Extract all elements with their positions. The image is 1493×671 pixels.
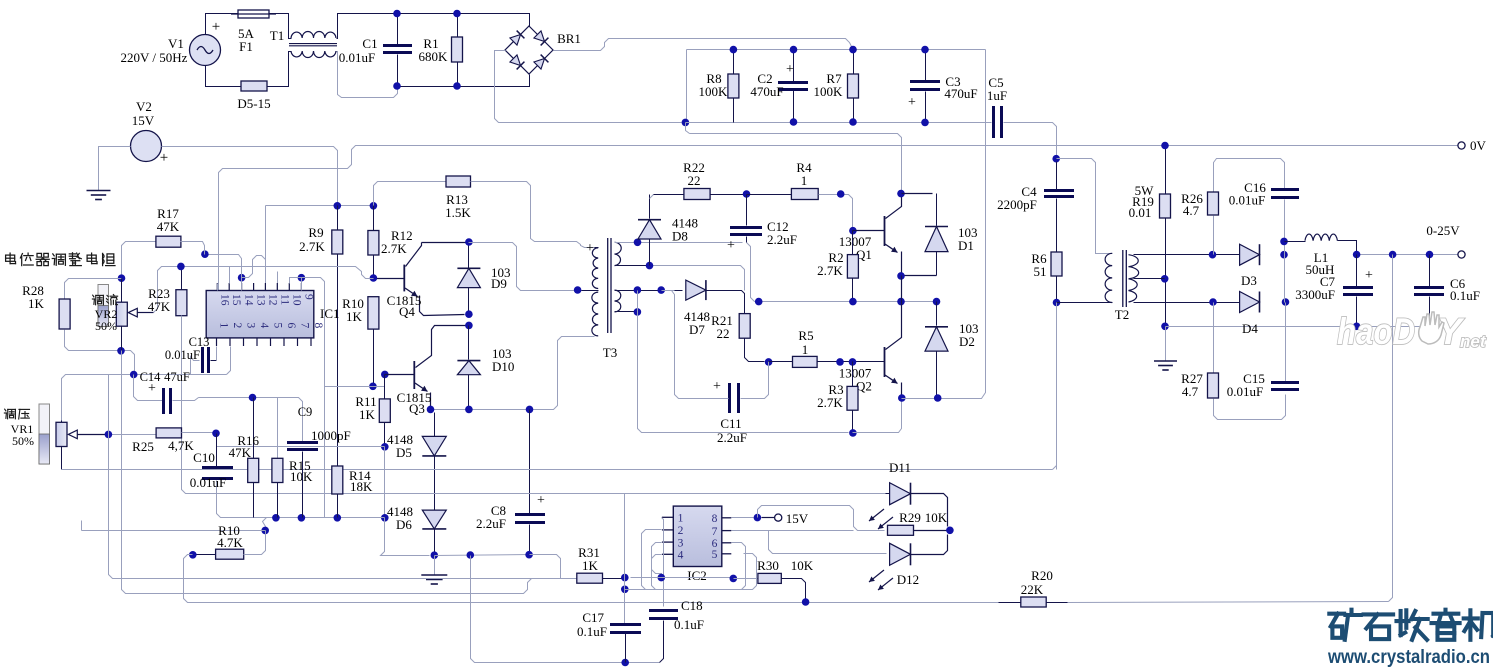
svg-text:R30: R30 <box>757 558 779 573</box>
IC IC2 body <box>673 506 722 566</box>
wire: T3 primary top lead <box>595 247 599 249</box>
wire: R9 bottom to R14 top <box>337 255 339 467</box>
resistor R10 4.7K (lower) <box>193 554 216 556</box>
IC1 pin 16 <box>216 283 218 291</box>
resistor R9 2.7K <box>337 206 339 231</box>
svg-text:D3: D3 <box>1241 273 1257 288</box>
resistor R25 4.7K <box>156 428 181 438</box>
svg-text:+: + <box>586 241 594 256</box>
svg-text:+: + <box>537 493 545 508</box>
node: D2 anode <box>934 394 942 402</box>
svg-text:+: + <box>713 379 721 394</box>
node: R15 bottom <box>272 514 280 522</box>
node: R7 bottom <box>849 118 857 126</box>
svg-text:1: 1 <box>801 173 808 188</box>
svg-text:2.7K: 2.7K <box>299 239 325 254</box>
wire: pin9 pin10 tie <box>298 274 306 282</box>
svg-text:0.01uF: 0.01uF <box>339 50 375 65</box>
svg-text:D8: D8 <box>672 229 688 244</box>
node: R6 bottom <box>1053 299 1061 307</box>
IC2 pin 8 <box>722 517 732 519</box>
node: center tap <box>574 286 582 294</box>
svg-text:50%: 50% <box>12 434 34 448</box>
wire: V2 right to drive rail <box>162 147 338 206</box>
diode D2 103 <box>936 302 938 326</box>
node: R1 top <box>453 10 461 18</box>
wire: T3 sec top upper lead to C12 <box>615 242 743 244</box>
wire: DC+ top rail <box>687 49 986 51</box>
diode D9 103 <box>457 267 480 269</box>
svg-text:R5: R5 <box>798 328 813 343</box>
svg-text:0.1uF: 0.1uF <box>674 617 704 632</box>
node: pin3 on rail <box>658 574 666 582</box>
svg-text:10K: 10K <box>290 469 313 484</box>
svg-text:Q3: Q3 <box>409 401 425 416</box>
wire: VR1 wiper row <box>109 434 157 436</box>
transistor Q4 C1815 <box>403 265 405 292</box>
node: R8 top <box>730 46 738 54</box>
svg-text:3: 3 <box>245 323 257 329</box>
node: R10 link <box>261 527 269 535</box>
node: C1 top <box>393 10 401 18</box>
wire: 0V rail <box>219 146 1459 291</box>
svg-text:D5: D5 <box>396 445 412 460</box>
diode D4 103 <box>1240 292 1260 313</box>
wire: pin14 drive node <box>238 274 246 282</box>
capacitor C3 470uF <box>925 50 927 81</box>
node: R10 left <box>189 551 197 559</box>
svg-text:2.2uF: 2.2uF <box>767 232 797 247</box>
node: R23 top <box>177 263 185 271</box>
node: 15V junction <box>754 514 762 522</box>
svg-text:5: 5 <box>712 549 718 561</box>
wire: row under IC1 <box>263 517 385 519</box>
svg-text:15V: 15V <box>786 511 809 526</box>
svg-text:2.7K: 2.7K <box>817 263 843 278</box>
node: R31 right <box>621 574 629 582</box>
svg-text:8: 8 <box>312 323 324 329</box>
svg-text:D12: D12 <box>897 572 919 587</box>
wire: pin16 stub <box>217 284 219 291</box>
svg-text:0.1uF: 0.1uF <box>577 624 607 639</box>
svg-text:D11: D11 <box>889 460 911 475</box>
svg-text:T3: T3 <box>603 345 617 360</box>
wire: center tap to T2 <box>1134 278 1165 280</box>
wire: D5-15 to T1 bottom <box>268 52 292 87</box>
node: R30 left <box>730 575 738 583</box>
wire: C11 left plate to D7 anode riser <box>672 291 729 399</box>
wire: R17 right to pin14 <box>205 255 242 278</box>
IC1 pin 14 <box>241 283 243 291</box>
svg-text:+: + <box>212 19 220 35</box>
svg-text:4.7: 4.7 <box>1182 384 1199 399</box>
node: C3 top <box>921 46 929 54</box>
svg-text:D7: D7 <box>689 322 705 337</box>
svg-text:15V: 15V <box>132 113 155 128</box>
wire: link line going left <box>82 530 266 532</box>
capacitor C14 47uF <box>134 375 163 401</box>
svg-text:9: 9 <box>302 294 314 300</box>
svg-text:1K: 1K <box>28 296 45 311</box>
node: C9 bottom <box>298 514 306 522</box>
svg-text:680K: 680K <box>419 49 449 64</box>
resistor R8 100K <box>733 50 735 75</box>
IC1 pin 8 <box>310 338 312 346</box>
svg-text:+: + <box>148 381 156 396</box>
ground symbol under R19 column <box>1165 327 1167 361</box>
svg-text:R9: R9 <box>308 225 323 240</box>
wire: Q4 collector to D9 node <box>422 242 466 244</box>
wire: AC top rail from V1 to fuse <box>206 14 239 35</box>
wire: VR1 wiper down to R31 rail <box>109 435 555 579</box>
diode LED D11 <box>886 493 890 495</box>
resistor R29 10K <box>888 525 914 535</box>
node: row drop junction <box>467 551 475 559</box>
svg-text:11: 11 <box>278 294 290 305</box>
resistor R1 680K <box>457 14 459 38</box>
node: VR2 bottom <box>117 347 125 355</box>
wire: T1 bottom right to bottom AC rail <box>337 52 398 98</box>
capacitor C2 470uF <box>793 50 795 82</box>
wire: T1 top right to AC rail with C1 R1 to bridge <box>337 14 530 39</box>
node: D4 cathode C15 <box>1282 298 1290 306</box>
wire: R28 bottom rail <box>65 330 135 375</box>
IC1 pin 11 <box>276 283 278 291</box>
node: D4 anode R27 <box>1209 298 1217 306</box>
wire: VR1 top to bias line <box>61 421 63 423</box>
diode D10 103 <box>457 360 480 362</box>
node: feedback top <box>1389 251 1397 259</box>
wire: pin12 riser <box>265 206 267 291</box>
resistor R12 2.7K <box>373 206 375 231</box>
capacitor C13 0.01uF <box>191 357 200 375</box>
svg-text:C13: C13 <box>189 335 210 349</box>
bridge rectifier BR1 <box>505 26 553 74</box>
wire: DC+ rail left end down to DC- junction <box>686 50 687 123</box>
svg-text:D1: D1 <box>958 238 974 253</box>
node: D10 bottom <box>465 406 473 414</box>
svg-text:IC1: IC1 <box>320 306 340 321</box>
diode D6 4148 <box>422 510 446 529</box>
diode D3 103 <box>1240 244 1260 265</box>
svg-text:6: 6 <box>285 323 297 329</box>
wire: DC+ rail right end down to Q2 emitter rail <box>942 50 986 399</box>
IC2 pin 2 <box>662 529 673 531</box>
node: C4 top junction <box>1052 155 1060 163</box>
svg-text:2200pF: 2200pF <box>997 197 1037 212</box>
wire: drive supply row to R9 R12 <box>266 205 374 207</box>
svg-text:1: 1 <box>678 513 684 525</box>
wire: bridge right vertex to DC+ rail <box>554 39 852 51</box>
svg-text:4.7K: 4.7K <box>217 535 243 550</box>
svg-text:V2: V2 <box>136 99 152 114</box>
node: R1 bottom <box>453 82 461 90</box>
svg-text:10K: 10K <box>791 558 814 573</box>
IC IC1 TL494 body <box>206 291 314 338</box>
wire: IC2 pin2 lead <box>642 530 662 590</box>
wire: row left curve to R10 link <box>263 518 267 531</box>
node: Q3 emitter <box>427 406 435 414</box>
node: C2 bottom <box>790 118 798 126</box>
wire: T3 primary center tap to Q4 collector node <box>582 290 599 292</box>
capacitor C9 1000pF <box>287 441 318 444</box>
resistor R19 0.01 5W <box>1165 146 1167 195</box>
node: sec bottom lower <box>634 308 642 316</box>
node: Q3 base <box>381 371 389 379</box>
node: R10 bottom <box>369 383 377 391</box>
wire: VR1 wiper riser <box>108 375 110 435</box>
potentiometer VR2 <box>98 285 109 327</box>
svg-text:13: 13 <box>255 294 267 306</box>
svg-text:1K: 1K <box>582 558 599 573</box>
label VR2 <box>92 295 103 305</box>
node: Q3 collector junction <box>465 322 473 330</box>
node: R11 bottom <box>381 443 389 451</box>
svg-text:470uF: 470uF <box>750 84 783 99</box>
wire: R31 left jog to feedback rail <box>122 351 532 594</box>
wire: Q4 emitter <box>405 288 418 297</box>
wire: Q1 collector to D1 <box>902 193 933 195</box>
svg-text:T1: T1 <box>270 28 284 43</box>
watermark haoDIY.net <box>1337 311 1487 352</box>
resistor R28 1K <box>59 299 70 329</box>
capacitor C18 0.1uF <box>649 609 678 612</box>
wire: anode riser joins D7 line <box>662 290 675 292</box>
wire: T2 secondary bottom to D4 <box>1134 302 1240 304</box>
resistor R3 2.7K <box>852 362 854 387</box>
node: Q1 base <box>849 227 857 235</box>
svg-text:C9: C9 <box>298 405 313 419</box>
svg-text:0.1uF: 0.1uF <box>1450 288 1480 303</box>
svg-text:3: 3 <box>678 537 684 549</box>
svg-text:0V: 0V <box>1470 138 1487 153</box>
node: R5 right a <box>836 358 844 366</box>
svg-text:+: + <box>1365 268 1373 283</box>
wire: Q1 base lead <box>853 230 885 232</box>
svg-text:2: 2 <box>231 323 243 329</box>
svg-text:470uF: 470uF <box>944 86 977 101</box>
node: VR1 wiper <box>105 431 113 439</box>
IC1 pin 15 <box>228 283 230 291</box>
resistor R10 1K <box>368 297 379 329</box>
resistor R31 1K <box>577 573 603 583</box>
svg-text:14: 14 <box>243 294 255 306</box>
wire: R31 right column <box>624 494 626 624</box>
wire: R28 top link <box>65 279 122 300</box>
wire: IC2 pin4 lead <box>652 555 662 590</box>
IC2 pin 6 <box>722 542 732 544</box>
svg-text:2.7K: 2.7K <box>817 395 843 410</box>
svg-text:100K: 100K <box>814 84 844 99</box>
svg-text:12: 12 <box>266 294 278 306</box>
svg-text:1.5K: 1.5K <box>445 205 471 220</box>
wire: Q3 collector <box>416 326 466 368</box>
node: DC- junction <box>682 119 690 127</box>
svg-text:D10: D10 <box>492 359 514 374</box>
svg-text:+: + <box>727 238 735 253</box>
node: C12 top <box>743 190 751 198</box>
svg-text:Q4: Q4 <box>399 304 415 319</box>
wire: current sense rail to T2 <box>62 469 1053 471</box>
svg-text:D6: D6 <box>396 517 412 532</box>
wire: rail from VR1 wiper to R31 <box>555 578 577 580</box>
node: R19 top on 0V rail <box>1161 142 1169 150</box>
node: D6 bottom <box>431 551 439 559</box>
svg-text:haoD: haoD <box>1337 311 1415 352</box>
svg-text:47K: 47K <box>229 445 252 460</box>
svg-text:47uF: 47uF <box>164 370 190 384</box>
svg-text:16: 16 <box>218 294 230 306</box>
wire: row to R31 rail drop <box>530 555 561 579</box>
wire: fuse to T1 top <box>270 14 292 39</box>
resistor R2 2.7K <box>852 231 854 255</box>
wire: Q1 emitter <box>885 244 898 253</box>
potentiometer VR1 <box>39 404 50 464</box>
svg-text:0.01uF: 0.01uF <box>1229 193 1265 208</box>
svg-text:BR1: BR1 <box>557 31 581 46</box>
capacitor C16 0.01uF <box>1271 188 1299 191</box>
node: Q1 emitter Q2 collector <box>897 298 905 306</box>
IC2 pin 4 <box>662 553 673 555</box>
node: C3 bottom <box>921 119 929 127</box>
wire: Q3 emitter <box>415 383 428 392</box>
diode D1 103 <box>936 194 938 226</box>
wire: V2 left to ground <box>99 147 131 191</box>
node: Q2 emitter <box>898 394 906 402</box>
wire: V1 bottom to D5-15 <box>206 66 242 87</box>
wire: Q3 emitter row <box>431 337 595 410</box>
svg-text:100K: 100K <box>699 84 729 99</box>
svg-text:1K: 1K <box>346 309 363 324</box>
node: C7 bottom <box>1353 323 1361 331</box>
node: C17 top <box>621 586 629 594</box>
wire: Q1 collector <box>886 194 902 219</box>
svg-text:10: 10 <box>290 294 302 306</box>
wire: C16 bottom to L1 node <box>1284 200 1286 303</box>
wire: pin15 riser <box>229 267 231 284</box>
wire: R11 bottom line to C10 column <box>217 446 385 448</box>
svg-text:1: 1 <box>802 342 809 357</box>
IC2 pin 7 <box>722 530 732 532</box>
resistor R11 1K <box>384 375 386 399</box>
logo crystalradio <box>1327 610 1493 668</box>
wire: bridge left vertex to DC- rail <box>495 51 682 123</box>
wire: Q2 collector <box>886 302 902 350</box>
capacitor C15 0.01uF <box>1285 303 1287 382</box>
wire: R10 left drop to bottom rail <box>184 555 1047 603</box>
transistor Q3 C1815 <box>413 361 415 389</box>
wire: IC1 pin11 stub <box>277 272 279 291</box>
IC1 pin 1 <box>216 338 218 346</box>
wire: R3 bottom to Q2 emitter <box>853 399 902 433</box>
svg-text:V1: V1 <box>168 36 184 51</box>
resistor R4 1 <box>747 194 792 196</box>
node: sec top lead <box>634 239 642 247</box>
svg-text:C10: C10 <box>193 450 215 465</box>
wire: Q4 base lead <box>374 278 405 280</box>
transistor Q2 13007 <box>884 347 886 377</box>
transformer T2 <box>1122 250 1124 307</box>
node: C2 top <box>790 46 798 54</box>
wire: drop from row to bottom rail <box>471 556 660 663</box>
svg-text:7: 7 <box>299 323 311 329</box>
wire: R23 bottom to LED rail <box>182 316 886 494</box>
svg-text:18K: 18K <box>350 479 373 494</box>
ground symbol under V2 <box>87 190 111 192</box>
IC2 pin 3 <box>662 541 673 543</box>
svg-text:0.01uF: 0.01uF <box>190 475 226 490</box>
node: D8 anode <box>646 262 654 270</box>
svg-text:3300uF: 3300uF <box>1295 287 1335 302</box>
wire: pins column branch to Q3 base line <box>325 386 331 388</box>
node: R17 left VR2 top <box>118 274 126 282</box>
node: C6 top <box>1426 251 1434 259</box>
wire: IC2 pin1 column to C18 <box>662 518 664 607</box>
capacitor C17 0.1uF <box>610 623 641 626</box>
svg-text:IC2: IC2 <box>687 568 707 583</box>
resistor R30 10K <box>631 577 734 579</box>
resistor R7 100K <box>853 50 855 75</box>
node: D9 top <box>465 238 473 246</box>
resistor R26 4.7 <box>1214 159 1285 193</box>
wire: R6 bottom down to current sense rail <box>1053 303 1057 470</box>
svg-text:R20: R20 <box>1031 568 1053 583</box>
node: R3 bottom <box>849 429 857 437</box>
node: C14 left <box>130 371 138 379</box>
svg-text:D2: D2 <box>959 334 975 349</box>
node: C16 bottom L1 <box>1280 238 1288 246</box>
svg-text:1K: 1K <box>359 407 376 422</box>
resistor R13 1.5K <box>374 182 447 206</box>
capacitor C1 0.01uF <box>397 14 399 45</box>
wire: VR1 bottom to current sense rail <box>61 447 63 470</box>
node: R4 right <box>837 190 845 198</box>
node: R17 right junction <box>201 250 209 258</box>
wire: T2 secondary top to D3 <box>1134 254 1240 256</box>
node: Q2 base <box>849 358 857 366</box>
capacitor C4 2200pF <box>1044 189 1074 192</box>
wire: Q2 emitter row to D2 <box>902 398 942 400</box>
svg-text:15: 15 <box>230 294 242 306</box>
resistor R21 22 <box>739 314 750 339</box>
svg-text:8: 8 <box>712 513 718 525</box>
node: R9 top <box>334 202 342 210</box>
node: C8 top <box>526 406 534 414</box>
terminal 15V <box>762 517 775 519</box>
svg-text:22K: 22K <box>1021 582 1044 597</box>
node: mid rail left <box>755 298 763 306</box>
IC1 pin 6 <box>283 338 285 346</box>
svg-text:51: 51 <box>1034 264 1047 279</box>
node: R16 top <box>249 394 257 402</box>
resistor R15 10K <box>277 398 279 459</box>
wire: R11 column down to D6 row <box>384 447 386 518</box>
svg-text:47K: 47K <box>157 219 180 234</box>
resistor R5 1 <box>769 361 793 363</box>
wire: Q4 collector <box>406 243 422 267</box>
IC1 pin 13 <box>253 283 255 291</box>
wire: Q3 base lead <box>385 374 415 376</box>
node: C1 bottom <box>393 82 401 90</box>
wire: VR2 wiper to R23 top line <box>154 267 374 313</box>
wire: secondary common rail <box>1166 326 1448 328</box>
capacitor C6 0.1uF <box>1429 255 1431 287</box>
IC1 pin 12 <box>264 283 266 291</box>
svg-text:2: 2 <box>678 525 684 537</box>
IC1 pin 5 <box>270 338 272 346</box>
resistor R27 4.7 <box>1213 303 1215 374</box>
resistor R23 47K <box>181 267 183 290</box>
